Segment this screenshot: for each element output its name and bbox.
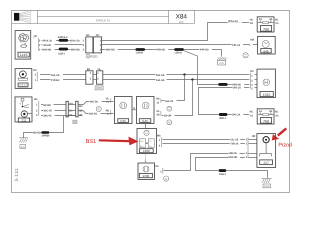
connector R201 <box>83 34 102 53</box>
svg-text:M4V-ND: M4V-ND <box>42 49 51 52</box>
svg-text:R201: R201 <box>90 55 98 59</box>
svg-text:VE: VE <box>106 97 110 100</box>
svg-text:14B-GE: 14B-GE <box>228 152 237 155</box>
wire 3DC-VE (211 pin2) <box>41 109 66 113</box>
svg-text:NC: NC <box>250 18 254 21</box>
wire 36A-BJ (bars to E45 pin 3) <box>78 111 113 116</box>
svg-text:P06: P06 <box>219 62 224 65</box>
svg-text:MA: MA <box>157 135 161 138</box>
svg-text:M13: M13 <box>264 185 270 188</box>
inline connector bars (right half) <box>68 101 82 117</box>
wire 35A-GE (R2 to 1515 pin1) <box>103 73 250 77</box>
title bar <box>12 11 195 24</box>
link G45 to 1332 <box>145 124 147 129</box>
svg-text:NC: NC <box>33 69 37 72</box>
component 211 motor icon <box>21 111 32 117</box>
title X84 <box>176 14 188 25</box>
svg-text:1415: 1415 <box>20 53 28 57</box>
svg-text:B3: B3 <box>179 21 183 25</box>
svg-text:M2-ND: M2-ND <box>33 132 41 135</box>
wire 14L-GE (1332 pin1 to socket pin5) <box>162 138 257 142</box>
svg-text:L5M-1: L5M-1 <box>58 53 66 56</box>
svg-text:NC: NC <box>250 110 254 113</box>
svg-text:4P1A-JA: 4P1A-JA <box>70 39 80 42</box>
svg-text:14L-GE: 14L-GE <box>230 138 239 141</box>
wire 15A-GE (C17J to R2) <box>40 73 86 77</box>
svg-text:Przod: Przod <box>278 142 291 148</box>
red arrow BS1 <box>99 137 139 146</box>
svg-text:M4J-ND: M4J-ND <box>228 156 237 159</box>
svg-text:T4D-ND: T4D-ND <box>42 44 51 47</box>
link H between E45 and G45 <box>132 107 137 110</box>
component C17J box <box>15 69 32 89</box>
svg-text:3DC-VE: 3DC-VE <box>43 110 52 113</box>
socket box 217 (Prise) <box>252 134 276 168</box>
connector P06 hatched <box>217 57 226 65</box>
splice on ground wire <box>219 169 227 176</box>
svg-text:2B: 2B <box>156 114 159 117</box>
svg-text:T4D-JA: T4D-JA <box>232 44 241 47</box>
wire M4V-ND / P4P-ND (R201 to connector P06) <box>102 48 222 57</box>
svg-text:2R-OR: 2R-OR <box>164 114 172 117</box>
circled R designator lower <box>164 176 169 181</box>
splice CPR34 on ground wire <box>41 131 50 137</box>
1332 pin bracket MA <box>157 135 162 148</box>
svg-text:3B: 3B <box>79 109 82 112</box>
svg-text:RA: RA <box>156 98 160 101</box>
socket symbol <box>263 137 269 143</box>
svg-text:NC: NC <box>155 165 159 168</box>
svg-text:M2-ND: M2-ND <box>43 104 51 107</box>
svg-text:C17J: C17J <box>19 83 27 87</box>
wire stub from bars pin 2B <box>78 114 82 116</box>
connector R2 hatched label <box>95 86 103 90</box>
svg-text:16A-VE: 16A-VE <box>165 100 174 103</box>
1332 upper designator <box>139 149 153 153</box>
wire 16A-VE (junction to box G45 pin 12) <box>162 75 185 103</box>
dashed link 1332 to 1332 lower <box>145 154 147 162</box>
G45 right pin 12 <box>156 98 161 105</box>
wire 5P2-JA (pin5 to fuse 760 lower) <box>199 86 250 117</box>
inline connector R2 <box>86 68 103 84</box>
fuse box 760 upper <box>250 17 279 32</box>
splice on 5P2-JA <box>219 113 228 120</box>
svg-text:H: H <box>133 107 135 110</box>
svg-text:VE: VE <box>156 110 160 113</box>
ECU E45 left pin 7T <box>106 97 111 104</box>
title bar harness connector icon <box>14 11 31 24</box>
splice E4P1A on wire 4P1A-JA <box>58 36 68 42</box>
red arrow Przod <box>272 128 287 140</box>
svg-text:D4DUL7a: D4DUL7a <box>96 18 110 22</box>
svg-text:760: 760 <box>263 27 269 31</box>
svg-text:NC: NC <box>96 34 100 37</box>
wire T4B-JA (1332 pin2 to socket pin1) <box>162 142 257 146</box>
component 1415 icon <box>19 34 29 48</box>
wire 24A-GE (R2 to 1515 pin2) <box>103 78 250 82</box>
svg-text:24A-GE: 24A-GE <box>156 79 165 82</box>
component 211 box <box>15 97 32 122</box>
wire M2-ND to ground (motor earth) <box>24 116 64 138</box>
wire 4P1A-JA (R201 to fuse 760 top) <box>102 19 250 40</box>
connector R201 designator <box>86 54 98 58</box>
junction node on 2YR wire <box>191 78 193 80</box>
svg-text:5P2-JA: 5P2-JA <box>232 114 240 117</box>
svg-text:1515: 1515 <box>263 93 271 97</box>
component 211 pin bracket B4 <box>34 98 39 117</box>
wire M4J-ND (socket pin1 to ground M13) <box>196 155 268 178</box>
circled icon left of clock box <box>243 53 248 58</box>
svg-text:NC: NC <box>275 110 279 113</box>
svg-text:1G: 1G <box>275 22 278 25</box>
component 1415 box <box>15 31 31 59</box>
svg-text:5P2-JA: 5P2-JA <box>233 87 241 90</box>
frame border <box>12 11 290 193</box>
svg-text:DA5-1: DA5-1 <box>219 173 227 176</box>
svg-text:R: R <box>87 55 89 58</box>
svg-text:CPR34: CPR34 <box>42 134 50 137</box>
wire 2YR-BJ (C17J to R2) <box>40 78 86 82</box>
ECU E45 left pin 3 <box>106 109 111 116</box>
svg-text:RD: RD <box>106 109 110 112</box>
red annotation Przod <box>278 142 291 148</box>
svg-text:3-131: 3-131 <box>14 168 19 182</box>
svg-text:MH: MH <box>21 146 25 149</box>
svg-text:OR: OR <box>252 135 256 138</box>
ECU box G45 <box>137 97 155 124</box>
svg-text:1332: 1332 <box>143 174 150 178</box>
splice L5M on wire M4V-ND <box>58 48 68 56</box>
junction node on 15A wire <box>183 73 185 75</box>
splice on P4R-ND <box>218 83 227 86</box>
svg-text:T4B-JA: T4B-JA <box>230 143 239 146</box>
sheet number 3-131 <box>14 168 19 182</box>
wire 4P1A-JA (1415 pin5 to R201) <box>42 39 83 43</box>
wire 14B-GE (lower connector to socket pin2) <box>164 151 257 170</box>
component 1515 box <box>250 69 275 98</box>
G45 right pin 2B <box>156 110 161 117</box>
wire P4R-ND (splice to pin3 of 1515 bracket) <box>184 51 250 87</box>
component 1332 upper box (BS1 target) <box>137 129 157 154</box>
svg-text:MA: MA <box>250 38 254 41</box>
circled icon above 2R-OR wire <box>167 106 172 111</box>
svg-text:1332: 1332 <box>143 149 150 153</box>
svg-text:NO: NO <box>69 102 73 105</box>
circled icon below 2R-OR wire <box>167 120 172 125</box>
component 1415 pin bracket NC <box>33 35 41 51</box>
svg-text:M4V-ND: M4V-ND <box>71 49 80 52</box>
wire 2R-OR (junction to box G45 pin 2B) <box>162 80 193 118</box>
title bar text <box>96 18 110 22</box>
socket designator 217 <box>260 160 273 165</box>
ground M13 (right) <box>262 178 272 188</box>
ECU box E45 <box>115 97 133 124</box>
wire T4D-JA (R201 to clock 645) <box>102 43 249 47</box>
wire M4V-ND (1415 pin3 to R201) <box>42 48 84 52</box>
svg-text:NC: NC <box>275 18 279 21</box>
svg-text:E4P1A-2: E4P1A-2 <box>58 36 68 39</box>
svg-text:NC: NC <box>250 70 254 73</box>
component 1415 designator label <box>18 52 29 57</box>
svg-text:211: 211 <box>21 119 26 123</box>
svg-text:1A: 1A <box>97 68 100 71</box>
C17J pin bracket <box>33 69 37 82</box>
svg-text:G45: G45 <box>142 119 148 123</box>
splice L5M-B <box>136 48 146 55</box>
socket internal wiring <box>260 143 272 156</box>
red annotation BS1 <box>86 139 96 145</box>
svg-text:2YR-BJ: 2YR-BJ <box>51 79 60 82</box>
component 211 switch icon <box>20 98 29 107</box>
svg-text:NC: NC <box>34 35 38 38</box>
wire M2-ND (211 pin1) <box>41 103 66 107</box>
component 211 designator <box>18 118 29 123</box>
svg-text:NO: NO <box>79 105 83 108</box>
svg-text:4P1A-JA: 4P1A-JA <box>228 20 238 23</box>
clock box 645 <box>249 36 275 54</box>
svg-text:15A-GE: 15A-GE <box>51 74 60 77</box>
component 1332 lower box <box>138 163 155 180</box>
inline connector bars (left half) <box>66 101 73 117</box>
svg-text:BS1: BS1 <box>86 139 96 145</box>
svg-text:NC: NC <box>86 34 90 37</box>
svg-text:2G: 2G <box>275 114 278 117</box>
svg-text:35A-GE: 35A-GE <box>156 74 165 77</box>
svg-text:M4V-ND: M4V-ND <box>106 49 115 52</box>
svg-text:645: 645 <box>263 49 269 53</box>
svg-text:217: 217 <box>263 161 269 165</box>
svg-text:L5M-A: L5M-A <box>175 52 183 55</box>
hatched label under bars <box>73 120 77 124</box>
svg-text:E45: E45 <box>121 119 127 123</box>
svg-text:5M2-1: 5M2-1 <box>219 117 226 120</box>
socket pin bracket <box>247 137 249 158</box>
svg-text:P4P-ND: P4P-ND <box>200 49 209 52</box>
wire T4D-ND (1415 pin2 to R201) <box>42 43 83 47</box>
wire 36A-VE (211 pin5) <box>41 114 76 118</box>
ground MH (left) <box>19 138 28 149</box>
splice L5M-A <box>174 48 184 55</box>
svg-text:L5M-B: L5M-B <box>136 52 144 55</box>
svg-text:760: 760 <box>263 119 269 123</box>
wire 36C-BL (bars to E45 pin 7T) <box>78 100 113 105</box>
1332 lower pin bracket NC <box>155 165 163 174</box>
1332 internal connector <box>140 139 155 148</box>
svg-text:1G: 1G <box>250 114 253 117</box>
svg-text:36C-BL: 36C-BL <box>90 100 99 103</box>
svg-text:36A-VE: 36A-VE <box>43 114 52 117</box>
svg-text:R: R <box>165 177 167 181</box>
circled icon between bars and E45 <box>96 107 101 112</box>
fuse box 760 lower <box>250 109 279 124</box>
svg-text:4P1A-JA: 4P1A-JA <box>42 39 52 42</box>
svg-text:2G: 2G <box>250 22 253 25</box>
svg-text:36A-BJ: 36A-BJ <box>89 113 98 116</box>
svg-text:P4R-ND: P4R-ND <box>156 49 165 52</box>
